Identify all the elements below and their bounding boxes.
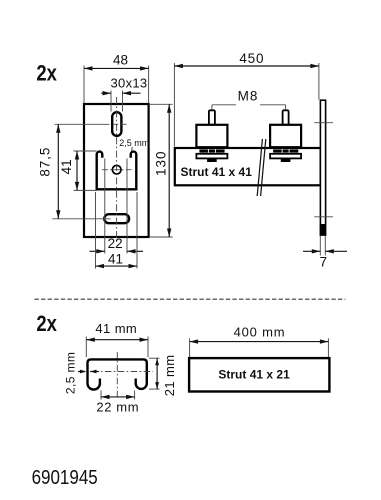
svg-text:450: 450 <box>239 51 264 66</box>
vertical wall plate (edge view, right) <box>320 100 325 235</box>
svg-text:130: 130 <box>153 150 168 176</box>
wall plate dark lower section <box>320 224 326 235</box>
extension line top slot center (87,5 top ref) <box>55 123 110 125</box>
svg-text:41 mm: 41 mm <box>95 321 137 336</box>
wall plate hole centerline tick (lower) <box>314 216 333 218</box>
bottom slot (horizontal) <box>104 214 129 223</box>
dimension 87,5 <box>57 124 59 219</box>
dimension 48 (plate width) <box>83 66 85 104</box>
svg-text:2,5 mm: 2,5 mm <box>64 352 78 394</box>
dimension 41 mm (profile width) <box>85 337 87 358</box>
welded channel (U with hooks) on plate <box>97 152 137 190</box>
strut 41x41 body (side view) <box>175 148 321 185</box>
svg-text:48: 48 <box>113 53 128 68</box>
profile horizontal centerline <box>92 371 153 373</box>
break lines on strut <box>257 139 262 196</box>
dimension 130 (plate height) <box>150 103 173 105</box>
dimension 2,5 mm (wall thickness) <box>78 371 85 373</box>
svg-text:21 mm: 21 mm <box>162 355 177 397</box>
svg-text:M8: M8 <box>238 88 259 103</box>
svg-text:22 mm: 22 mm <box>96 400 139 415</box>
svg-text:30x13: 30x13 <box>111 76 148 91</box>
dimension 30x13 (top slot) <box>110 91 112 112</box>
svg-text:Strut 41 x 21: Strut 41 x 21 <box>218 368 290 382</box>
strut profile cross-section 41x21 <box>88 359 147 389</box>
extension line bottom slot center (87,5 bottom ref) <box>52 218 110 220</box>
bolt assembly 2: washer bar <box>273 150 298 153</box>
svg-text:87,5: 87,5 <box>37 147 52 177</box>
svg-text:22: 22 <box>108 236 123 251</box>
svg-text:2x: 2x <box>36 61 57 86</box>
svg-text:400 mm: 400 mm <box>234 325 286 340</box>
wall plate hole centerline tick (upper) <box>314 122 333 124</box>
svg-text:2,5 mm: 2,5 mm <box>119 138 149 148</box>
bolt assembly 2: channel nut plate <box>270 154 301 159</box>
horizontal centerline through circle <box>102 169 132 171</box>
svg-text:41: 41 <box>59 159 74 174</box>
svg-text:2x: 2x <box>36 311 57 336</box>
bolt assembly 1: cone block <box>196 125 227 147</box>
top slot 30x13 <box>112 112 121 136</box>
svg-text:7: 7 <box>319 254 327 269</box>
svg-text:41: 41 <box>108 252 123 267</box>
dimension 21 mm (profile height) <box>149 357 160 359</box>
dimension 400 mm (bar length) <box>189 338 191 357</box>
dashed separator line <box>34 298 345 300</box>
profile vertical centerline <box>116 352 118 398</box>
plate outline (front view) <box>84 104 149 237</box>
svg-text:Strut 41 x 41: Strut 41 x 41 <box>181 165 253 179</box>
bolt assembly 2: cone block <box>270 125 301 147</box>
vertical centerline of plate <box>116 97 118 243</box>
bolt assembly 2: stud <box>283 110 289 125</box>
bolt assembly 1: washer bar <box>199 150 224 153</box>
bolt assembly 1: nut tab <box>207 159 217 162</box>
dimension 450 (strut length) <box>173 63 175 147</box>
svg-text:6901945: 6901945 <box>32 466 98 489</box>
dimension 41 (below plate) <box>95 192 97 269</box>
strut 41x21 bar (side view) <box>189 358 329 391</box>
bolt assembly 1: channel nut plate <box>196 154 227 159</box>
center hole circle <box>112 165 121 174</box>
dimension 41 (left, channel height) <box>74 150 97 152</box>
dimension 22 (below plate) <box>104 159 106 254</box>
dimension 7 (wall plate thickness) <box>319 236 321 256</box>
bolt assembly 2: nut tab <box>281 159 291 162</box>
bolt assembly 1: stud <box>209 110 215 125</box>
dimension 22 mm (profile opening) <box>100 391 102 400</box>
